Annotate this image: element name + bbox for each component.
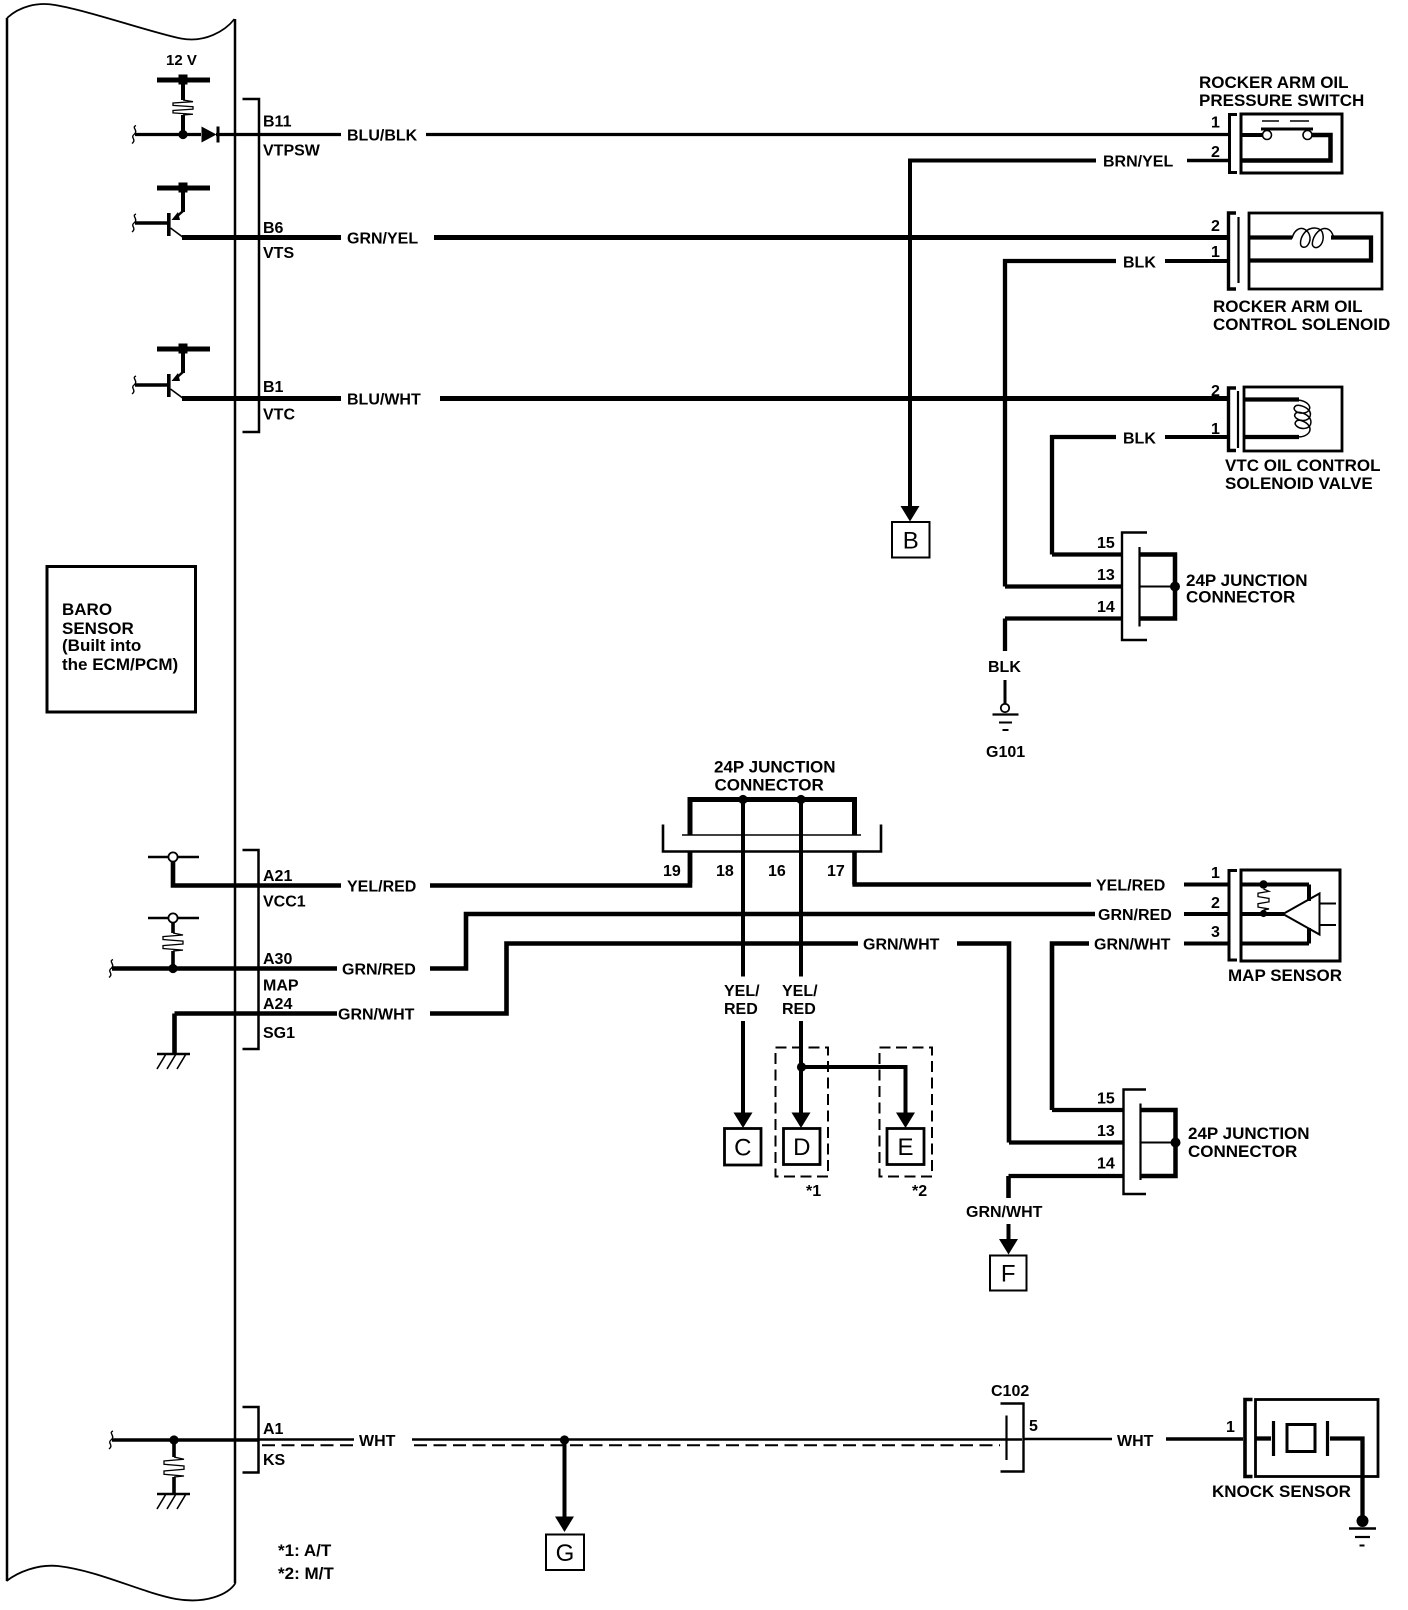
wire BLU/WHT B1 — [182, 396, 235, 401]
amp outputs — [1320, 903, 1337, 905]
svg-text:SG1: SG1 — [263, 1025, 295, 1042]
diode — [202, 127, 217, 143]
svg-text:1: 1 — [1211, 421, 1220, 438]
wire GRN/YEL to solenoid pin 2 — [235, 235, 341, 240]
junction internal bus hook — [1140, 555, 1175, 619]
wire GRN/WHT to MAP pin 3 — [1052, 944, 1089, 1111]
svg-text:BRN/YEL: BRN/YEL — [1103, 154, 1173, 171]
svg-text:G: G — [556, 1540, 575, 1567]
svg-text:RED: RED — [782, 1001, 816, 1018]
svg-text:2: 2 — [1211, 144, 1220, 161]
svg-text:VTC: VTC — [263, 407, 295, 424]
MAP internal resistor — [1258, 889, 1269, 910]
branch wire to E — [802, 1067, 906, 1115]
switch internal wire to pin 2 — [1241, 135, 1331, 161]
svg-text:2: 2 — [1211, 895, 1220, 912]
svg-text:13: 13 — [1097, 567, 1115, 584]
pin 19 stub — [688, 852, 693, 884]
VTC transistor Q (driver) — [181, 351, 185, 373]
svg-text:(Built into: (Built into — [62, 636, 141, 655]
destination box D — [784, 1129, 821, 1165]
pressure switch box — [1241, 114, 1342, 173]
internal resistor to ground — [172, 1440, 176, 1457]
svg-text:1: 1 — [1226, 1419, 1235, 1436]
piezo element — [1256, 1436, 1272, 1440]
wire GRN/WHT to F — [1006, 1176, 1011, 1198]
svg-text:A1: A1 — [263, 1421, 284, 1438]
MAP internal: ground rail — [1241, 942, 1309, 946]
wire BRN/YEL from pressure switch pin 2 — [1187, 159, 1229, 163]
switch contacts — [1241, 133, 1262, 137]
svg-text:*1: *1 — [806, 1183, 821, 1200]
svg-text:VTPSW: VTPSW — [263, 143, 321, 160]
ECM torn top edge — [7, 4, 235, 39]
wire BLK VTC solenoid pin 1 — [1165, 435, 1227, 439]
knock sensor box — [1256, 1400, 1379, 1477]
svg-text:BARO: BARO — [62, 600, 112, 619]
connector tray — [682, 834, 861, 836]
svg-text:*1: A/T: *1: A/T — [278, 1541, 332, 1560]
svg-text:D: D — [793, 1134, 810, 1161]
VTC coil — [1244, 397, 1299, 401]
A1 internal wire — [109, 1431, 113, 1449]
svg-text:A30: A30 — [263, 951, 292, 968]
svg-text:3: 3 — [1211, 924, 1220, 941]
svg-text:BLK: BLK — [1123, 431, 1156, 448]
12 V supply bar — [157, 78, 210, 83]
junction internal bus hook — [1141, 1110, 1176, 1176]
svg-text:19: 19 — [663, 863, 681, 880]
dashed M/T option box around E — [880, 1048, 933, 1177]
svg-text:VTS: VTS — [263, 245, 294, 262]
wire WHT C102 to knock sensor — [1024, 1438, 1113, 1441]
wire pin 13 — [1005, 584, 1122, 588]
svg-text:C102: C102 — [991, 1383, 1029, 1400]
svg-text:VTC OIL CONTROL: VTC OIL CONTROL — [1225, 456, 1381, 475]
svg-text:CONNECTOR: CONNECTOR — [715, 776, 824, 795]
svg-text:14: 14 — [1097, 599, 1115, 616]
svg-text:GRN/WHT: GRN/WHT — [1094, 937, 1171, 954]
switch blade — [1261, 128, 1313, 131]
svg-text:15: 15 — [1097, 535, 1115, 552]
svg-text:CONNECTOR: CONNECTOR — [1188, 1142, 1297, 1161]
svg-text:B6: B6 — [263, 220, 284, 237]
svg-text:17: 17 — [827, 863, 845, 880]
svg-text:B1: B1 — [263, 379, 284, 396]
shield dashed line — [262, 1444, 354, 1446]
24P junction connector (upper right) bracket — [1122, 533, 1147, 641]
node on pin16 drop — [797, 1062, 806, 1071]
svg-text:YEL/RED: YEL/RED — [347, 879, 416, 896]
wire YEL/RED A21 to junction pin 19 — [235, 883, 341, 888]
svg-text:B: B — [903, 527, 919, 554]
svg-text:13: 13 — [1097, 1123, 1115, 1140]
svg-text:15: 15 — [1097, 1091, 1115, 1108]
ECM torn bottom edge — [7, 1566, 236, 1601]
emitter — [171, 228, 185, 238]
wire VTPSW internal — [135, 133, 201, 136]
wire GRN/WHT A24 — [175, 1011, 338, 1016]
24P junction connector (lower right) bracket — [1124, 1090, 1147, 1195]
svg-text:CONNECTOR: CONNECTOR — [1186, 588, 1295, 607]
wire BLU/WHT to VTC solenoid pin 2 — [235, 396, 341, 401]
junction bus bar — [688, 797, 858, 802]
svg-text:the ECM/PCM): the ECM/PCM) — [62, 655, 178, 674]
svg-text:GRN/WHT: GRN/WHT — [863, 937, 940, 954]
wire GRN/YEL B6 — [182, 235, 235, 240]
svg-text:1: 1 — [1211, 244, 1220, 261]
svg-text:GRN/RED: GRN/RED — [342, 962, 416, 979]
svg-text:G101: G101 — [986, 744, 1025, 761]
svg-text:MAP: MAP — [263, 978, 299, 995]
wire YEL/RED junction 17 to MAP pin 1 — [852, 882, 1091, 887]
svg-text:KS: KS — [263, 1452, 286, 1469]
svg-text:B11: B11 — [263, 114, 292, 131]
wire 12V to node — [181, 82, 185, 100]
pressure switch connector bracket — [1230, 115, 1238, 173]
destination box E — [887, 1129, 924, 1165]
pin 18 vertical — [741, 800, 745, 977]
VTS supply bar — [157, 186, 210, 191]
svg-text:WHT: WHT — [1117, 1433, 1154, 1450]
svg-text:A21: A21 — [263, 868, 292, 885]
destination box F — [990, 1256, 1027, 1291]
svg-text:12 V: 12 V — [166, 52, 197, 69]
svg-text:MAP SENSOR: MAP SENSOR — [1228, 966, 1342, 985]
connector A1 bracket — [243, 1407, 259, 1473]
node junction on B11 wire — [178, 130, 187, 139]
rocker arm oil control solenoid box — [1249, 213, 1382, 289]
wire A30 internal — [112, 966, 235, 971]
resistor (pull-up in ECM) — [173, 100, 193, 115]
junction dot pin 16 — [796, 795, 805, 804]
pin 18 drop to C — [741, 1021, 745, 1115]
svg-text:YEL/: YEL/ — [782, 983, 818, 1000]
wire pin 15 — [1052, 552, 1122, 556]
svg-text:BLK: BLK — [988, 659, 1021, 676]
svg-text:5: 5 — [1029, 1418, 1038, 1435]
arrow into B — [901, 506, 920, 522]
VTS transistor Q (driver) — [181, 190, 185, 212]
solenoid connector bracket — [1229, 213, 1237, 289]
svg-text:24P JUNCTION: 24P JUNCTION — [714, 758, 836, 777]
MAP sensor connector bracket — [1229, 871, 1237, 961]
VTC solenoid box — [1244, 387, 1342, 451]
BARO sensor box — [47, 567, 196, 713]
wire break squiggle — [132, 126, 136, 144]
svg-text:2: 2 — [1211, 218, 1220, 235]
connector A bracket — [243, 850, 259, 1049]
solenoid coil wire — [1249, 235, 1292, 239]
A21 internal terminal — [148, 856, 199, 859]
wire GRN/RED A30 to MAP sensor — [235, 966, 337, 971]
wire pin 14 — [1009, 1174, 1124, 1178]
ECM/PCM right border — [234, 19, 237, 1583]
svg-text:KNOCK SENSOR: KNOCK SENSOR — [1212, 1482, 1351, 1501]
svg-text:PRESSURE SWITCH: PRESSURE SWITCH — [1199, 91, 1364, 110]
knock sensor ground — [1357, 1515, 1369, 1527]
ECM/PCM left border — [6, 18, 9, 1581]
svg-text:1: 1 — [1211, 115, 1220, 132]
wire BLK to G101 — [1003, 619, 1007, 652]
ground G101 — [1001, 704, 1009, 712]
svg-text:1: 1 — [1211, 865, 1220, 882]
svg-text:E: E — [897, 1134, 913, 1161]
svg-text:VCC1: VCC1 — [263, 894, 306, 911]
wire pin 13 — [1009, 1140, 1124, 1144]
wire pin 15 — [1052, 1108, 1124, 1112]
knock sensor bracket — [1245, 1400, 1253, 1477]
VTC solenoid connector bracket — [1229, 388, 1237, 451]
svg-text:CONTROL SOLENOID: CONTROL SOLENOID — [1213, 315, 1390, 334]
A24 internal ground — [172, 1014, 177, 1054]
svg-text:YEL/RED: YEL/RED — [1096, 878, 1165, 895]
svg-text:GRN/YEL: GRN/YEL — [347, 231, 418, 248]
svg-text:WHT: WHT — [359, 1433, 396, 1450]
svg-text:ROCKER ARM OIL: ROCKER ARM OIL — [1213, 297, 1363, 316]
MAP internal: signal to amp — [1241, 912, 1284, 916]
svg-text:14: 14 — [1097, 1156, 1115, 1173]
connector B bracket — [243, 99, 260, 432]
svg-text:GRN/RED: GRN/RED — [1098, 907, 1172, 924]
svg-text:BLK: BLK — [1123, 255, 1156, 272]
node to G — [560, 1435, 569, 1444]
svg-text:24P JUNCTION: 24P JUNCTION — [1188, 1124, 1310, 1143]
MAP amplifier triangle — [1283, 894, 1320, 935]
svg-text:A24: A24 — [263, 996, 292, 1013]
svg-text:F: F — [1001, 1261, 1016, 1288]
svg-text:RED: RED — [724, 1001, 758, 1018]
svg-text:GRN/WHT: GRN/WHT — [338, 1007, 415, 1024]
MAP internal: supply rail — [1241, 883, 1309, 887]
dashed A/T option box around D — [776, 1048, 829, 1177]
junction dot pin 18 — [738, 795, 747, 804]
svg-text:*2: *2 — [912, 1183, 927, 1200]
wire WHT A1 to C102 — [259, 1438, 355, 1441]
pin 17 stub — [852, 852, 857, 885]
wire BLK rocker solenoid pin 1 — [1165, 259, 1227, 263]
MAP sensor box — [1241, 870, 1340, 961]
svg-text:SOLENOID VALVE: SOLENOID VALVE — [1225, 474, 1373, 493]
base wire — [132, 214, 136, 232]
svg-text:2: 2 — [1211, 383, 1220, 400]
svg-text:16: 16 — [768, 863, 786, 880]
svg-text:ROCKER ARM OIL: ROCKER ARM OIL — [1199, 73, 1349, 92]
VTC supply bar — [157, 347, 210, 352]
svg-text:18: 18 — [716, 863, 734, 880]
svg-text:GRN/WHT: GRN/WHT — [966, 1204, 1043, 1221]
svg-text:*2: M/T: *2: M/T — [278, 1564, 334, 1583]
svg-text:YEL/: YEL/ — [724, 983, 760, 1000]
svg-text:C: C — [734, 1134, 751, 1161]
svg-text:BLU/WHT: BLU/WHT — [347, 392, 421, 409]
destination box G — [546, 1535, 584, 1571]
pin 16 drop to D — [799, 1021, 803, 1115]
wire pin 14 — [1005, 616, 1122, 620]
A30 internal terminal with resistor — [148, 917, 199, 920]
svg-text:BLU/BLK: BLU/BLK — [347, 128, 418, 145]
pin 16 vertical — [799, 800, 803, 977]
wire BLU/BLK B11 to pressure switch pin 1 — [235, 133, 341, 136]
destination box B — [892, 522, 930, 558]
destination box C — [725, 1129, 762, 1166]
